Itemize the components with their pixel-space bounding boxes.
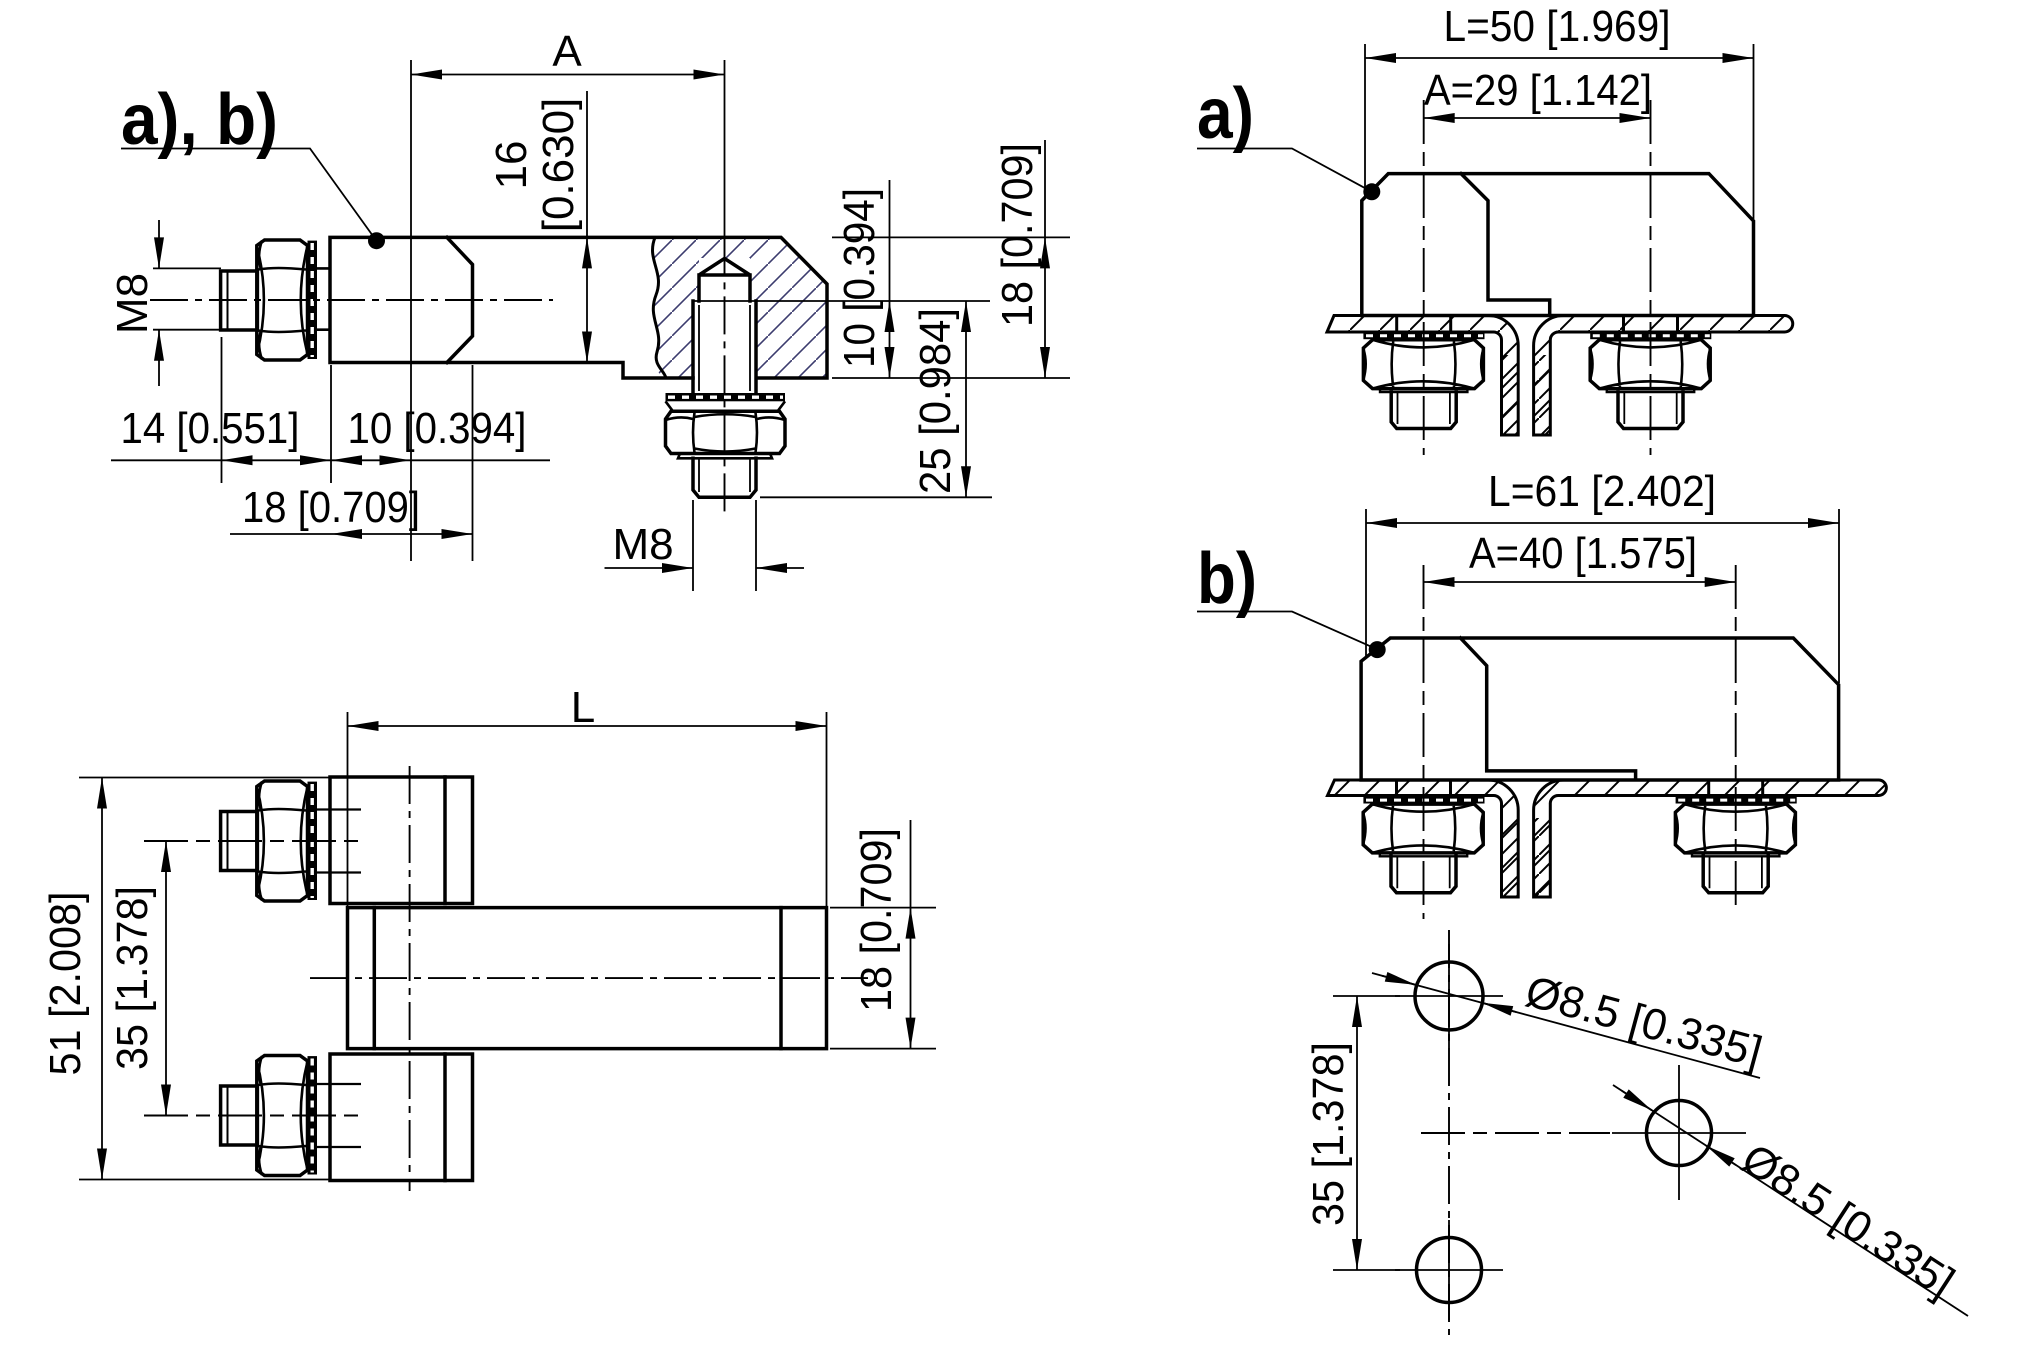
bolt B3 centerline — [144, 1115, 361, 1117]
svg-text:18 [0.709]: 18 [0.709] — [242, 483, 420, 532]
washer W4 — [308, 1056, 318, 1174]
dim A40 line — [1424, 581, 1736, 583]
svg-text:A: A — [552, 27, 582, 76]
ext right y378 — [832, 377, 1070, 379]
bolt end EB2 thread — [1710, 856, 1762, 888]
svg-text:18 [0.709]: 18 [0.709] — [993, 143, 1042, 327]
dim 14/10 line — [111, 459, 222, 461]
stud M8 head — [699, 259, 750, 302]
ext x472 — [472, 365, 474, 561]
dim 10r line — [889, 180, 891, 301]
hex nut N1 — [666, 411, 786, 453]
plate right + clip B2 — [1534, 780, 1887, 897]
ext 35h bottom — [1333, 1269, 1400, 1271]
svg-text:35 [1.378]: 35 [1.378] — [1304, 1042, 1353, 1226]
bolt B1 head — [221, 271, 258, 330]
tab axis centerline — [409, 766, 411, 1191]
washer cone — [666, 401, 786, 411]
dim 18a line — [910, 820, 912, 908]
bolt end EA2 thread — [1624, 392, 1676, 424]
dim 18b line — [230, 533, 331, 535]
VIEW2 — [41, 683, 936, 1191]
ext x331 — [330, 365, 332, 483]
bolt end EA2 — [1618, 392, 1683, 429]
ext 51 bottom — [79, 1179, 330, 1181]
svg-text:14 [0.551]: 14 [0.551] — [121, 404, 300, 453]
bolt B3 head line — [227, 1086, 229, 1145]
bolt head inner line — [227, 271, 229, 330]
hole H1 — [1415, 962, 1483, 1030]
nut NB1 — [1363, 804, 1483, 853]
hatch section block — [640, 236, 830, 381]
nut NA2 — [1590, 340, 1710, 389]
nut NA1 collar — [1380, 389, 1467, 392]
dim A line — [411, 74, 725, 76]
dim L line — [348, 725, 827, 727]
ext 18a top — [830, 907, 936, 909]
dim A29 line — [1424, 117, 1651, 119]
seat line — [693, 300, 990, 302]
leader dia1 arrows — [1382, 976, 1416, 985]
washer WB2 — [1676, 797, 1797, 804]
leader dia1 — [1372, 973, 1760, 1078]
nut collar — [678, 454, 772, 459]
tab T2 chamfer line — [443, 1054, 447, 1181]
break wavy line — [653, 237, 666, 378]
ext L50 left — [1364, 44, 1366, 196]
bolt centerline — [150, 299, 553, 301]
svg-text:[0.630]: [0.630] — [534, 98, 583, 233]
bolt shank through plate A1 — [1397, 316, 1451, 333]
bolt shank — [317, 268, 330, 329]
stud M8 shank — [693, 301, 756, 393]
bolt B3 head — [221, 1086, 258, 1145]
svg-text:M8: M8 — [612, 520, 673, 569]
leader b) dot — [1369, 641, 1386, 658]
nut N3 faces — [257, 782, 308, 901]
dim M8 line — [605, 567, 694, 569]
leader b) — [1197, 612, 1376, 649]
washer WA2 — [1590, 333, 1711, 340]
hole H2 — [1647, 1101, 1712, 1166]
washer W3 — [308, 782, 318, 900]
svg-text:L=50 [1.969]: L=50 [1.969] — [1444, 2, 1671, 51]
plate left + clip A1 — [1327, 316, 1518, 436]
nut NB1 collar — [1380, 853, 1467, 856]
ext L50 right — [1753, 44, 1755, 219]
body A outline — [1362, 174, 1754, 316]
bolt B2 head line — [227, 812, 229, 871]
centerline B1 — [1423, 565, 1425, 919]
hole H2 crosshair — [1612, 1065, 1746, 1200]
VIEWA — [1197, 2, 1793, 455]
dim 25 line — [965, 301, 967, 497]
svg-text:35 [1.378]: 35 [1.378] — [108, 886, 157, 1070]
ext line stud axis — [724, 60, 726, 237]
nut NA1 faces — [1363, 340, 1483, 389]
centerline A2 — [1650, 100, 1652, 455]
bolt shank through plate B2 — [1709, 780, 1763, 797]
nut N4 — [257, 1056, 308, 1176]
dim 18r line — [1044, 140, 1046, 237]
svg-text:L: L — [571, 683, 595, 732]
bolt B2 head — [221, 812, 258, 871]
nut NB2 — [1675, 804, 1795, 853]
dim 35h line — [1356, 996, 1358, 1270]
centerline A1 — [1423, 100, 1425, 455]
ext x221 — [221, 337, 223, 483]
hole column centerline — [1448, 930, 1450, 1335]
stud end — [693, 458, 756, 497]
HOLES — [1304, 930, 1968, 1335]
ext 35h top — [1333, 995, 1400, 997]
dim 35 line — [165, 841, 167, 1116]
svg-text:A=29 [1.142]: A=29 [1.142] — [1424, 66, 1652, 115]
ext line x411 — [410, 60, 412, 561]
nut NA1 — [1363, 340, 1483, 389]
leader dia2 arrows — [1622, 1091, 1652, 1111]
nut N3 — [257, 781, 308, 901]
svg-text:25 [0.984]: 25 [0.984] — [911, 308, 960, 494]
hole row centerline — [1421, 1132, 1610, 1134]
strip hatch A1 — [1502, 355, 1519, 435]
dim 16 line — [586, 91, 588, 237]
nut NA2 collar — [1607, 389, 1694, 392]
nut NB2 collar — [1692, 853, 1779, 856]
ext L right — [826, 712, 828, 907]
bar end chamfer — [447, 237, 473, 362]
bolt B2 centerline — [144, 840, 361, 842]
svg-text:10 [0.394]: 10 [0.394] — [835, 188, 884, 368]
tab T1 — [330, 777, 473, 904]
nut NB2 faces — [1675, 804, 1795, 853]
bar outline — [330, 237, 827, 378]
bolt thread ext — [153, 268, 221, 329]
stud centerline — [724, 237, 726, 512]
serrated washer W2 — [308, 241, 318, 359]
stud end thread — [699, 458, 750, 492]
bolt shank through plate B1 — [1397, 780, 1451, 797]
leader a) — [1197, 149, 1370, 191]
leader dia2 — [1613, 1085, 1968, 1316]
leader dot — [368, 232, 385, 249]
bolt end EB2 — [1703, 856, 1768, 893]
bolt B2 shank — [317, 810, 361, 873]
washer WA1 — [1363, 333, 1484, 340]
ext 51 top — [79, 777, 330, 779]
centerline B2 — [1735, 565, 1737, 906]
bolt B3 shank — [317, 1084, 361, 1147]
nut NA2 faces — [1590, 340, 1710, 389]
dim L50 line — [1365, 57, 1754, 59]
svg-text:M8: M8 — [108, 273, 157, 334]
serrated washer W1 — [666, 393, 786, 401]
hole H3 crosshair — [1395, 1220, 1503, 1320]
svg-text:a): a) — [1197, 74, 1254, 154]
bolt end EA1 thread — [1398, 392, 1450, 424]
arm bend line — [373, 908, 377, 1049]
svg-text:51 [2.008]: 51 [2.008] — [41, 892, 90, 1076]
tab T2 — [330, 1054, 473, 1181]
VIEWB — [1197, 467, 1886, 919]
leader a),b) — [121, 149, 376, 240]
dim M8v line — [158, 220, 160, 268]
leader a) dot — [1363, 183, 1380, 200]
svg-text:16: 16 — [487, 141, 536, 190]
arm end chamfer line — [779, 908, 783, 1049]
svg-text:b): b) — [1197, 539, 1257, 619]
ext L left — [347, 712, 349, 907]
hole H1 crosshair — [1395, 944, 1503, 1048]
bolt end EB1 thread — [1397, 856, 1449, 888]
ext right y497 — [760, 496, 992, 498]
ext right y237 — [832, 236, 1070, 238]
stud thread lines — [699, 305, 750, 391]
bolt end EA1 — [1391, 392, 1456, 429]
plate right + clip A2 — [1534, 316, 1793, 436]
nut N2 faces — [257, 241, 308, 360]
nut faces — [666, 413, 786, 453]
ext L61 left — [1365, 509, 1367, 657]
washer WB1 — [1363, 797, 1484, 804]
nut N4 faces — [257, 1056, 308, 1175]
plate left + clip B1 — [1328, 780, 1519, 897]
ext L61 right — [1838, 509, 1840, 683]
svg-text:10 [0.394]: 10 [0.394] — [348, 404, 527, 453]
hole H3 — [1417, 1238, 1482, 1303]
bolt shank through plate A2 — [1624, 316, 1678, 333]
bolt end EB1 — [1391, 856, 1456, 893]
svg-text:A=40 [1.575]: A=40 [1.575] — [1469, 529, 1697, 578]
strip hatch A2 — [1534, 355, 1551, 435]
strip hatch B1 — [1502, 818, 1519, 897]
ext 18a bottom — [830, 1048, 936, 1050]
tab T1 chamfer line — [443, 777, 447, 904]
svg-text:18 [0.709]: 18 [0.709] — [852, 828, 901, 1012]
nut NB1 faces — [1363, 804, 1483, 853]
svg-text:L=61 [2.402]: L=61 [2.402] — [1488, 467, 1716, 516]
ext M8 — [693, 500, 756, 591]
body B outline — [1361, 638, 1839, 780]
arm centerline — [310, 977, 868, 979]
dim 51 line — [101, 778, 103, 1180]
arm outline — [348, 908, 827, 1049]
VIEW1 — [108, 27, 1070, 591]
strip hatch B2 — [1534, 818, 1551, 897]
dim L61 line — [1366, 522, 1839, 524]
hex nut N2 — [257, 240, 308, 360]
